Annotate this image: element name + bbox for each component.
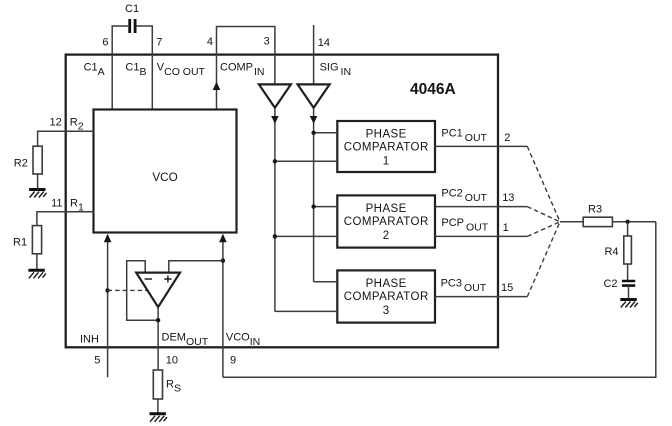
node DEM output — [156, 318, 160, 322]
svg-text:VCO: VCO — [152, 171, 177, 184]
phase comparator 3 box — [337, 270, 435, 322]
wire INH vertical (pin 5) — [107, 235, 109, 377]
wire VCO IN vertical (pin 9) — [222, 235, 224, 377]
wire R2 to ground — [37, 174, 39, 188]
wire pin11 R1 — [37, 212, 95, 226]
svg-text:4: 4 — [207, 36, 213, 48]
svg-text:COMPIN: COMPIN — [220, 62, 265, 79]
svg-text:C1A: C1A — [84, 62, 105, 79]
dashed wire INH to op-amp — [108, 289, 148, 291]
dashed wire pin13 to node — [527, 207, 560, 222]
op-amp plus sign — [164, 276, 171, 283]
svg-text:2: 2 — [504, 132, 510, 144]
svg-text:C1B: C1B — [125, 62, 146, 79]
svg-text:R1: R1 — [70, 197, 84, 213]
dashed wire pin2 to node — [527, 146, 560, 221]
resistor R1 — [32, 226, 41, 254]
node op-amp plus to VCO IN — [221, 259, 225, 263]
wire R3 to corner — [612, 221, 655, 223]
node COMP PC1 — [273, 159, 277, 163]
capacitor C1 — [130, 19, 135, 33]
svg-text:13: 13 — [502, 192, 514, 204]
phase comparator 1 box — [337, 121, 435, 172]
svg-text:4046A: 4046A — [410, 81, 456, 98]
wire PCP OUT (pin 1) — [435, 235, 527, 237]
svg-text:R3: R3 — [588, 204, 602, 216]
op-amp U1 — [136, 273, 180, 308]
wire PC2 OUT (pin 13) — [435, 206, 527, 208]
ground (R1) — [28, 270, 46, 278]
wire SIG to PC2 input — [314, 206, 338, 208]
svg-text:R2: R2 — [14, 157, 28, 169]
svg-text:1: 1 — [383, 155, 390, 167]
wire COMP to PC1 input — [275, 160, 337, 162]
svg-text:PCPOUT: PCPOUT — [441, 217, 488, 234]
wire node to R3 — [560, 221, 583, 223]
arrow up on pin4 line — [213, 82, 221, 90]
arrow down on COMP line — [271, 116, 279, 124]
wire pin6 to C1 left — [112, 26, 128, 110]
op-amp U1 feedback wire (minus input) — [127, 261, 158, 321]
capacitor C2 — [622, 281, 635, 286]
wire COMP to PC3 input — [275, 310, 337, 312]
wire COMP vertical — [274, 108, 276, 312]
wire R4 to C2 — [627, 264, 629, 280]
node SIG PC2 — [311, 204, 315, 208]
op-amp minus sign — [145, 278, 152, 280]
buffer amp A2 (SIG IN) — [298, 84, 330, 107]
svg-text:VCOIN: VCOIN — [226, 331, 260, 348]
resistor R4 — [624, 236, 632, 264]
svg-text:VCO OUT: VCO OUT — [157, 62, 206, 79]
svg-text:15: 15 — [501, 282, 513, 294]
svg-text:3: 3 — [383, 305, 390, 317]
wire R4 top lead — [627, 222, 629, 236]
svg-text:SIGIN: SIGIN — [320, 62, 351, 79]
svg-text:PHASE: PHASE — [366, 203, 407, 215]
svg-text:C2: C2 — [603, 278, 617, 290]
wire pin4 to pin3 loop — [217, 27, 275, 110]
svg-text:R1: R1 — [13, 236, 27, 248]
wire SIG vertical — [313, 108, 315, 282]
resistor RS — [153, 370, 162, 399]
svg-text:INH: INH — [80, 333, 99, 345]
arrow up into VCO (VCO IN) — [219, 234, 227, 243]
svg-text:2: 2 — [383, 230, 390, 242]
wire RS to ground — [157, 399, 159, 413]
svg-text:11: 11 — [51, 197, 62, 209]
svg-text:PC1OUT: PC1OUT — [441, 128, 487, 145]
svg-text:COMPARATOR: COMPARATOR — [344, 291, 429, 303]
op-amp U1 plus input wire — [169, 261, 223, 273]
node INH-dashed junction — [105, 288, 109, 292]
VCO box — [94, 110, 237, 233]
svg-text:10: 10 — [166, 354, 178, 366]
svg-text:COMPARATOR: COMPARATOR — [344, 142, 429, 154]
wire COMP to PC2 input — [275, 235, 337, 237]
wire R1 to ground — [36, 254, 38, 269]
svg-text:PC3OUT: PC3OUT — [441, 278, 487, 295]
arrow down on SIG line — [310, 116, 318, 124]
svg-text:9: 9 — [230, 354, 236, 366]
wire SIG to PC1 input — [314, 132, 338, 134]
buffer amp A1 (COMP IN) — [259, 84, 291, 107]
dashed wire pin1 to node — [527, 222, 560, 237]
svg-text:7: 7 — [156, 37, 162, 49]
wire op-amp output (DEM OUT, pin 10) — [157, 307, 159, 370]
svg-text:14: 14 — [318, 37, 330, 49]
svg-text:1: 1 — [503, 222, 509, 234]
node R3 R4 junction — [625, 220, 629, 224]
phase comparator 2 box — [337, 195, 435, 247]
resistor R2 — [33, 146, 42, 174]
svg-text:DEMOUT: DEMOUT — [162, 331, 209, 348]
svg-text:12: 12 — [50, 116, 62, 128]
wire PC3 OUT (pin 15) — [435, 296, 527, 298]
svg-text:6: 6 — [102, 37, 108, 49]
wire PC1 OUT (pin 2) — [435, 145, 527, 147]
node COMP PC2 — [273, 234, 277, 238]
node SIG PC1 — [311, 131, 315, 135]
wire pin12 R2 — [38, 131, 95, 146]
svg-text:R4: R4 — [604, 246, 618, 258]
wire pin14 stub — [313, 25, 315, 84]
svg-text:RS: RS — [166, 379, 181, 395]
resistor R3 — [583, 217, 612, 226]
dashed wire pin15 to node — [527, 222, 560, 297]
arrow up into VCO (INH) — [104, 234, 112, 243]
IC 4046A outer box — [66, 55, 498, 348]
svg-text:3: 3 — [264, 36, 270, 48]
svg-text:R2: R2 — [70, 116, 84, 132]
wire pin7 to C1 right — [136, 26, 152, 110]
ground (C2) — [620, 300, 638, 308]
svg-text:PHASE: PHASE — [366, 278, 407, 290]
svg-text:C1: C1 — [125, 3, 139, 15]
svg-text:COMPARATOR: COMPARATOR — [344, 216, 429, 228]
svg-text:PHASE: PHASE — [366, 128, 407, 140]
svg-text:5: 5 — [94, 354, 100, 366]
svg-text:PC2OUT: PC2OUT — [441, 188, 487, 205]
ground (R2) — [29, 190, 46, 198]
wire right loop down and bottom loop to pin 9 — [223, 222, 656, 377]
wire SIG to PC3 input — [314, 281, 338, 283]
wire C2 to ground — [628, 286, 630, 299]
ground (RS) — [150, 414, 168, 422]
